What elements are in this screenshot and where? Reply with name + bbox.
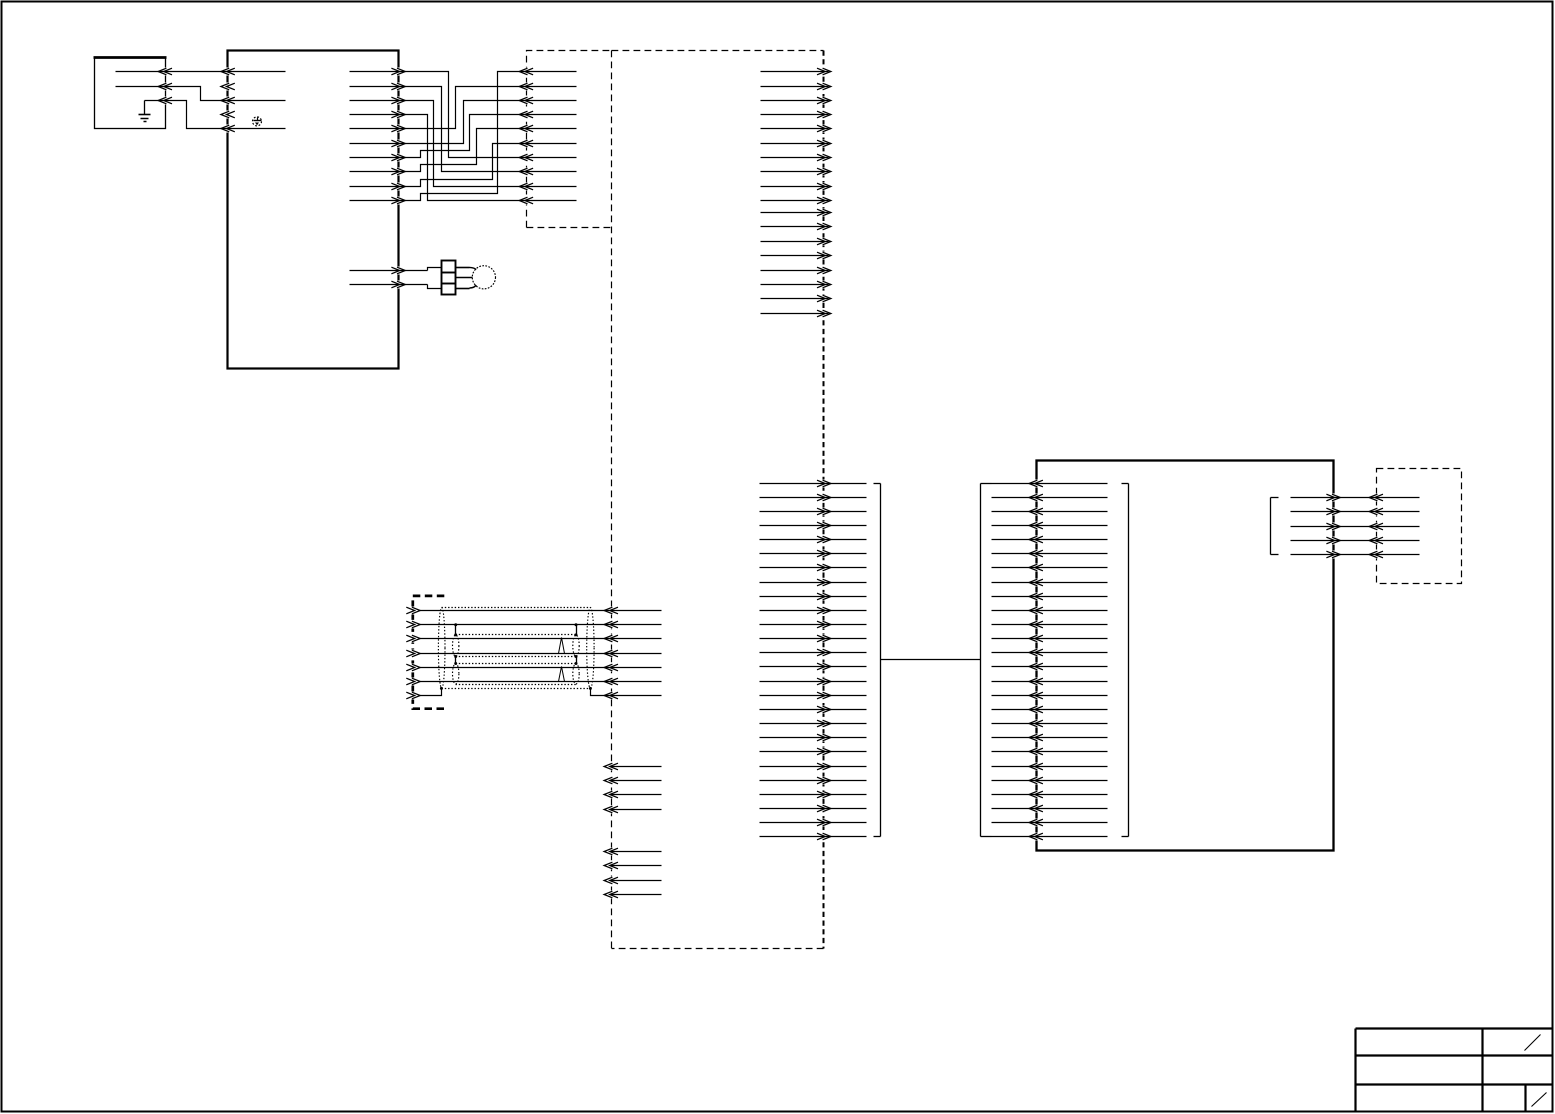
shielded wire S7 with shield pigtails: [406, 689, 661, 699]
wire B2 stub (TB2 out): [761, 223, 831, 230]
wire D22 (harness W1 to U2 pin22): [992, 777, 1108, 784]
wire B5 stub (TB2 out): [761, 267, 831, 274]
twisted pair symbol 1: [559, 638, 565, 654]
wire B4 stub (TB2 out): [761, 252, 831, 259]
wire X7 (U1 out pin7 to TB1 pin4): [350, 111, 577, 161]
wire D6 (harness W1 to U2 pin6): [992, 550, 1108, 557]
wire B1 stub (TB2 out): [761, 209, 831, 216]
wire X1 (U1 out pin1 to TB1 pin7): [350, 68, 577, 161]
title block slash 2: [1532, 1093, 1547, 1107]
wire C16 stub (TB2 to harness W1): [760, 692, 867, 699]
wire X4 (U1 out pin4 to TB1 pin10): [350, 111, 577, 204]
wire A10 stub (TB2 out): [761, 197, 831, 204]
wire C21 stub (TB2 to harness W1): [760, 763, 867, 770]
wire D14 (harness W1 to U2 pin14): [992, 663, 1108, 670]
wire U1 pin4 connector only: [221, 111, 235, 118]
wire G2 stub (TB2 in): [604, 862, 661, 869]
connector gaps left side: [163, 68, 231, 133]
wire AC-L (PS pin1 to U1 pin1): [116, 68, 286, 75]
wire D11 (harness W1 to U2 pin11): [992, 621, 1108, 628]
wire C6 stub (TB2 to harness W1): [760, 550, 867, 557]
wire C7 stub (TB2 to harness W1): [760, 564, 867, 571]
lamp leads: [456, 267, 477, 288]
wire C25 stub (TB2 to harness W1): [760, 819, 867, 826]
wire D17 (harness W1 to U2 pin17): [992, 706, 1108, 713]
wire X6 (U1 out pin6 to TB1 pin3): [350, 97, 577, 147]
pair shield A (dotted): [453, 635, 580, 657]
wire A7 stub (TB2 out): [761, 154, 831, 161]
wire A1 stub (TB2 out): [761, 68, 831, 75]
wire D3 (harness W1 to U2 pin3): [992, 508, 1108, 515]
wire X8 (U1 out pin8 to TB1 pin5): [350, 125, 577, 175]
wire C12 stub (TB2 to harness W1): [760, 635, 867, 642]
connector gaps TB2 right edge: [821, 68, 826, 841]
wire PE (ground to U1 pin5): [145, 97, 286, 132]
wire C19 stub (TB2 to harness W1): [760, 734, 867, 741]
wire C26 stub (TB2 to harness W1): [760, 833, 867, 840]
wire B8 stub (TB2 out): [761, 310, 831, 317]
ground symbol: [139, 101, 151, 122]
wire X5 (U1 out pin5 to TB1 pin2): [350, 83, 577, 132]
wire C14 stub (TB2 to harness W1): [760, 663, 867, 670]
shield bond dot right: [589, 687, 592, 690]
shielded wire S3: [406, 635, 661, 642]
drive unit box U2: [1037, 461, 1334, 851]
shield bond dot left: [440, 687, 443, 690]
wire X3 (U1 out pin3 to TB1 pin9): [350, 97, 577, 190]
twisted pair symbol 2: [559, 667, 565, 682]
shield drain link right top: [575, 623, 578, 636]
shield drain link right mid: [575, 655, 578, 665]
wire D15 (harness W1 to U2 pin15): [992, 678, 1108, 685]
title block slash 1: [1525, 1035, 1541, 1051]
wire E3 (U2 to M1 pin3): [1291, 523, 1420, 530]
main dashed enclosure TB2: [612, 51, 824, 949]
connector gaps U2 right / M1 left: [1330, 494, 1379, 559]
controller unit box U1: [228, 51, 399, 369]
wire C23 stub (TB2 to harness W1): [760, 791, 867, 798]
wire C1 stub (TB2 to harness W1): [760, 480, 867, 487]
protective earth symbol PE1: [253, 117, 262, 126]
wire D7 (harness W1 to U2 pin7): [992, 564, 1108, 571]
wire D1 (harness W1 to U2 pin1): [992, 480, 1108, 487]
shielded wire S1: [406, 607, 661, 614]
wire A2 stub (TB2 out): [761, 83, 831, 90]
wire D21 (harness W1 to U2 pin21): [992, 763, 1108, 770]
wire D18 (harness W1 to U2 pin18): [992, 720, 1108, 727]
lamp wire 1: [350, 267, 442, 274]
connector gaps box1 right / TB1 left: [395, 68, 529, 289]
wire D10 (harness W1 to U2 pin10): [992, 607, 1108, 614]
wire D19 (harness W1 to U2 pin19): [992, 734, 1108, 741]
wire X10 (U1 out pin10 to TB1 pin1): [350, 68, 577, 204]
wire E2 (U2 to M1 pin2): [1291, 508, 1420, 515]
outer cable shield (dotted): [438, 608, 594, 689]
harness W1 bracket left: [874, 484, 881, 837]
shield drain link left mid: [454, 655, 457, 665]
indicator lamp bulb: [472, 266, 495, 289]
wire D4 (harness W1 to U2 pin4): [992, 522, 1108, 529]
motor dashed box M1: [1377, 469, 1462, 584]
wire D9 (harness W1 to U2 pin9): [992, 593, 1108, 600]
wire D8 (harness W1 to U2 pin8): [992, 579, 1108, 586]
wire E1 (U2 to M1 pin1): [1291, 494, 1420, 501]
wire A6 stub (TB2 out): [761, 140, 831, 147]
wire C8 stub (TB2 to harness W1): [760, 579, 867, 586]
wire A8 stub (TB2 out): [761, 168, 831, 175]
shielded wire S5: [406, 664, 661, 671]
wire A4 stub (TB2 out): [761, 111, 831, 118]
wire D23 (harness W1 to U2 pin23): [992, 791, 1108, 798]
wire G1 stub (TB2 in): [604, 848, 661, 855]
wire C2 stub (TB2 to harness W1): [760, 494, 867, 501]
connector gaps TB2 left edge: [410, 607, 614, 899]
wire A5 stub (TB2 out): [761, 125, 831, 132]
wire D26 (harness W1 to U2 pin26): [992, 833, 1108, 840]
power source box PS: [94, 58, 167, 129]
wire D5 (harness W1 to U2 pin5): [992, 536, 1108, 543]
wire D24 (harness W1 to U2 pin24): [992, 805, 1108, 812]
wire C3 stub (TB2 to harness W1): [760, 508, 867, 515]
wire D25 (harness W1 to U2 pin25): [992, 819, 1108, 826]
wire D16 (harness W1 to U2 pin16): [992, 692, 1108, 699]
shielded wire S4: [406, 650, 661, 657]
wire D20 (harness W1 to U2 pin20): [992, 748, 1108, 755]
wire F1 stub (TB2 in): [604, 763, 661, 770]
shielded cable bracket (thick dashed): [413, 596, 445, 709]
wire C18 stub (TB2 to harness W1): [760, 720, 867, 727]
lamp wire 2: [350, 281, 442, 288]
wire C17 stub (TB2 to harness W1): [760, 706, 867, 713]
wire C10 stub (TB2 to harness W1): [760, 607, 867, 614]
wire C20 stub (TB2 to harness W1): [760, 748, 867, 755]
terminal block dashed box TB1: [527, 51, 612, 228]
wire E4 (U2 to M1 pin4): [1291, 537, 1420, 544]
shield drain link left top: [454, 623, 457, 636]
U2 output bracket: [1271, 498, 1279, 555]
wire C24 stub (TB2 to harness W1): [760, 805, 867, 812]
wire B6 stub (TB2 out): [761, 281, 831, 288]
wire B7 stub (TB2 out): [761, 295, 831, 302]
pair shield B (dotted): [453, 664, 580, 685]
U2 internal bracket: [1122, 484, 1129, 837]
wire B3 stub (TB2 out): [761, 238, 831, 245]
wire U1 pin2 connector only: [221, 83, 235, 90]
wire A9 stub (TB2 out): [761, 183, 831, 190]
lamp terminal block: [442, 261, 456, 295]
wire C13 stub (TB2 to harness W1): [760, 649, 867, 656]
wire A3 stub (TB2 out): [761, 97, 831, 104]
wire C11 stub (TB2 to harness W1): [760, 621, 867, 628]
shielded wire S2: [406, 621, 661, 628]
wire C22 stub (TB2 to harness W1): [760, 777, 867, 784]
wire C4 stub (TB2 to harness W1): [760, 522, 867, 529]
wire F4 stub (TB2 in): [604, 806, 661, 813]
title block: [1356, 1029, 1554, 1113]
harness W1 bracket right: [981, 484, 992, 837]
wire X9 (U1 out pin9 to TB1 pin6): [350, 140, 577, 190]
connector gaps U2 left edge: [1034, 480, 1039, 841]
wire D12 (harness W1 to U2 pin12): [992, 635, 1108, 642]
harness W1 cable run: [881, 659, 981, 661]
wire D13 (harness W1 to U2 pin13): [992, 649, 1108, 656]
wire F3 stub (TB2 in): [604, 791, 661, 798]
wire D2 (harness W1 to U2 pin2): [992, 494, 1108, 501]
wire C9 stub (TB2 to harness W1): [760, 593, 867, 600]
wire G3 stub (TB2 in): [604, 877, 661, 884]
wire E5 (U2 to M1 pin5): [1291, 551, 1420, 558]
wire X2 (U1 out pin2 to TB1 pin8): [350, 83, 577, 175]
wire G4 stub (TB2 in): [604, 891, 661, 898]
wire C15 stub (TB2 to harness W1): [760, 678, 867, 685]
wire F2 stub (TB2 in): [604, 777, 661, 784]
wire C5 stub (TB2 to harness W1): [760, 536, 867, 543]
shielded wire S6: [406, 678, 661, 685]
wire AC-N (PS pin2 jog to U1 pin3): [116, 83, 286, 104]
